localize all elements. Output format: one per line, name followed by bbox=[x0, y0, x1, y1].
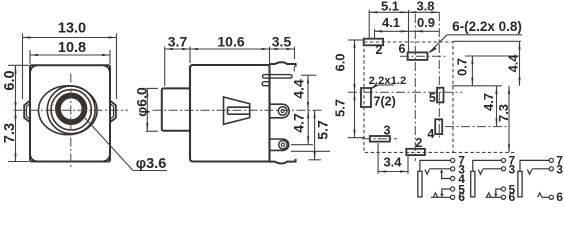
contact caret pin6 s1 bbox=[433, 193, 437, 197]
top pin strip bbox=[270, 62, 296, 67]
corner relief arc top-left bbox=[31, 66, 36, 71]
plug bar 1 bbox=[418, 171, 422, 197]
dim 6.0 left bbox=[2, 65, 29, 110]
svg-text:4.4: 4.4 bbox=[291, 79, 307, 99]
vertical centerline bbox=[70, 74, 72, 169]
barrel side bbox=[162, 88, 190, 130]
solder lug pin lower bbox=[270, 139, 289, 150]
dim 5.1 bbox=[369, 0, 408, 52]
dim 0.9 bbox=[415, 15, 435, 32]
dim 4.7 side bbox=[290, 110, 313, 145]
contact v pin3 s3 bbox=[527, 170, 531, 175]
component outline dashed box bbox=[364, 42, 453, 152]
svg-text:6: 6 bbox=[556, 190, 563, 201]
svg-text:4: 4 bbox=[427, 127, 434, 141]
dim 4.4 side bbox=[291, 75, 317, 110]
pad 7(2) bbox=[361, 88, 371, 107]
wire pin7 s3 bbox=[520, 160, 549, 170]
svg-text:6: 6 bbox=[458, 190, 465, 201]
dim 5.7 pcb bbox=[332, 92, 365, 137]
dim 0.7 pcb bbox=[452, 56, 519, 86]
wire pin4 s1 bbox=[442, 172, 451, 179]
terminal 7 s2 bbox=[501, 158, 505, 162]
wire pin3 s2 bbox=[483, 168, 502, 170]
boss circle bbox=[51, 90, 91, 130]
dim 4.7 pcb bbox=[445, 86, 508, 127]
horizontal centerline bbox=[14, 109, 129, 111]
wire pin5 s1 bbox=[442, 189, 450, 195]
terminal 5 s1 bbox=[451, 187, 455, 191]
terminal 6 s3 bbox=[549, 195, 553, 199]
pad 3 bbox=[370, 136, 390, 142]
svg-text:7.3: 7.3 bbox=[496, 104, 511, 122]
dim 10.6 bbox=[190, 34, 270, 71]
dim 3.4 bbox=[378, 143, 408, 174]
terminal 5 s2 bbox=[501, 187, 505, 191]
wire pin6 s2 bbox=[486, 196, 502, 198]
barrel circle bbox=[47, 86, 95, 134]
pad 2 top bbox=[364, 39, 384, 46]
pads 5-4 vertical centerline bbox=[438, 12, 440, 140]
svg-text:2: 2 bbox=[376, 43, 383, 57]
inner contact tab upper bbox=[263, 75, 293, 79]
svg-text:6: 6 bbox=[509, 190, 516, 201]
corner relief arc bottom-right bbox=[104, 156, 110, 161]
svg-text:6-(2.2x 0.8): 6-(2.2x 0.8) bbox=[452, 19, 522, 34]
svg-text:0.9: 0.9 bbox=[417, 15, 435, 30]
terminal 7 s3 bbox=[549, 158, 553, 162]
pcb vertical centerline bbox=[414, 14, 416, 161]
dim 3.5 bbox=[270, 34, 295, 72]
dim 3.8 bbox=[409, 0, 440, 14]
contact caret pin6 s3 bbox=[538, 193, 542, 197]
terminal 7 s1 bbox=[451, 158, 455, 162]
svg-text:6: 6 bbox=[399, 42, 406, 56]
contact v pin3 s2 bbox=[478, 170, 482, 175]
svg-text:0.7: 0.7 bbox=[454, 58, 469, 76]
solder lug pin upper bbox=[270, 104, 290, 118]
svg-text:5.7: 5.7 bbox=[314, 120, 330, 140]
tip contact cone bbox=[224, 97, 250, 124]
inner contact tab lower bbox=[262, 82, 270, 86]
dim 6.0 pcb bbox=[332, 40, 363, 92]
jack body side outline bbox=[190, 64, 270, 163]
svg-text:4.7: 4.7 bbox=[481, 93, 496, 111]
corner relief arc top-right bbox=[104, 66, 110, 71]
pad 6 bbox=[408, 52, 428, 60]
terminal 6 s1 bbox=[451, 195, 455, 199]
svg-text:7.3: 7.3 bbox=[2, 123, 18, 143]
dim 4.1 bbox=[375, 15, 440, 38]
svg-text:6.0: 6.0 bbox=[2, 70, 18, 90]
svg-text:4.7: 4.7 bbox=[290, 113, 306, 133]
svg-text:3: 3 bbox=[384, 124, 391, 138]
dim 5.7 side bbox=[291, 110, 330, 160]
wire pin7 s2 bbox=[473, 160, 501, 170]
dim 10.8 bbox=[30, 40, 110, 64]
metal ring heavy bbox=[58, 96, 85, 123]
svg-text:5: 5 bbox=[429, 91, 436, 105]
dim phi6.0 side bbox=[133, 87, 158, 131]
leader phi3.6 bbox=[84, 117, 167, 172]
svg-text:4.4: 4.4 bbox=[505, 54, 520, 73]
svg-text:3: 3 bbox=[556, 162, 563, 176]
svg-text:2: 2 bbox=[415, 136, 422, 150]
corner relief arc bottom-left bbox=[31, 156, 36, 161]
svg-text:4.1: 4.1 bbox=[382, 15, 400, 30]
terminal 3 s1 bbox=[451, 167, 455, 171]
svg-text:φ3.6: φ3.6 bbox=[136, 156, 167, 172]
svg-text:3.4: 3.4 bbox=[383, 155, 402, 170]
terminal 4 s1 bbox=[451, 176, 455, 180]
jack body front outline bbox=[30, 65, 110, 161]
svg-text:10.8: 10.8 bbox=[58, 40, 86, 56]
pad 2 bottom bbox=[406, 149, 425, 155]
contact caret pin6 s2 bbox=[487, 193, 491, 197]
dim 4.4 pcb bbox=[453, 41, 521, 86]
left mounting ear bbox=[24, 101, 30, 123]
label 2.2x1.2 bbox=[369, 75, 407, 90]
dim 13.0 bbox=[23, 21, 117, 100]
label 6-(2.2x0.8) bbox=[428, 19, 522, 54]
wire pin5 s2 bbox=[496, 189, 501, 195]
svg-text:5.1: 5.1 bbox=[381, 0, 399, 14]
terminal 6 s2 bbox=[501, 195, 505, 199]
contact v pin3 s1 bbox=[425, 170, 429, 175]
wire pin7 s1 bbox=[420, 160, 450, 170]
svg-text:3.7: 3.7 bbox=[168, 34, 188, 50]
svg-text:φ6.0: φ6.0 bbox=[133, 87, 149, 117]
plug bar 2 bbox=[471, 171, 475, 197]
wire pin3 s3 bbox=[532, 168, 549, 170]
svg-text:3.8: 3.8 bbox=[416, 0, 434, 14]
wire pin3 s1 bbox=[429, 168, 450, 170]
wire pin6 s1 bbox=[431, 196, 450, 198]
pad 4 bbox=[435, 119, 442, 134]
dim 7.3 left bbox=[2, 110, 29, 161]
svg-text:13.0: 13.0 bbox=[58, 21, 86, 37]
svg-text:3.5: 3.5 bbox=[272, 34, 292, 50]
svg-text:3: 3 bbox=[509, 162, 516, 176]
svg-text:7(2): 7(2) bbox=[374, 95, 396, 109]
dim 7.3 pcb bbox=[453, 86, 516, 153]
svg-text:6.0: 6.0 bbox=[332, 53, 347, 71]
bezel outer stadium bbox=[39, 86, 98, 135]
terminal 3 s3 bbox=[549, 167, 553, 171]
terminal 3 s2 bbox=[501, 167, 505, 171]
right mounting ear bbox=[110, 101, 116, 123]
dim 3.7 bbox=[165, 34, 190, 87]
side centerline bbox=[153, 109, 323, 111]
plug bar 3 bbox=[518, 171, 522, 197]
pad 5 bbox=[437, 88, 444, 103]
wire pin6 s3 bbox=[542, 196, 549, 198]
lug hole upper bbox=[278, 107, 287, 116]
svg-text:5.7: 5.7 bbox=[332, 99, 347, 117]
bottom pin strip bbox=[270, 159, 296, 164]
pcb horizontal centerline bbox=[348, 91, 462, 93]
svg-text:10.6: 10.6 bbox=[217, 34, 244, 50]
